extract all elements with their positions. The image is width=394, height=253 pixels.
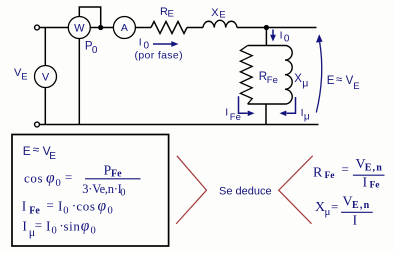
- svg-text:E: E: [353, 81, 359, 92]
- svg-text:cos: cos: [24, 171, 43, 186]
- svg-text:I: I: [46, 219, 51, 234]
- svg-text:cos: cos: [76, 199, 95, 214]
- svg-text:X: X: [294, 73, 302, 85]
- svg-text:I: I: [22, 199, 27, 214]
- arrow I0 down at node: [272, 30, 274, 37]
- arrow I0 horizontal: [153, 43, 173, 45]
- svg-text:μ: μ: [325, 206, 331, 218]
- junction dot node shunt: [264, 25, 269, 30]
- resistor RFe vertical: [240, 46, 252, 105]
- svg-text:μ: μ: [304, 111, 310, 122]
- wire top after wattmeter dot to ammeter: [90, 27, 113, 29]
- wire voltmeter branch upper: [44, 28, 46, 66]
- svg-text:E: E: [23, 144, 31, 158]
- svg-text:I: I: [139, 36, 142, 48]
- wire top main: [40, 27, 69, 29]
- svg-text:W: W: [74, 23, 85, 35]
- svg-text:A: A: [121, 22, 128, 34]
- svg-text:X: X: [211, 7, 219, 19]
- svg-text:I: I: [280, 29, 283, 41]
- svg-text:R: R: [313, 166, 323, 181]
- svg-text:=: =: [331, 199, 338, 214]
- svg-text:=: =: [342, 162, 349, 177]
- svg-text:R: R: [259, 71, 267, 83]
- svg-text:Fe: Fe: [230, 112, 241, 123]
- svg-text:=: =: [46, 198, 53, 213]
- wattmeter W: [68, 17, 90, 39]
- wire shunt bottom bar: [248, 103, 285, 105]
- svg-text:0: 0: [108, 206, 113, 217]
- svg-text:0: 0: [92, 45, 98, 56]
- svg-text:I: I: [22, 219, 27, 234]
- junction dot after W: [98, 25, 103, 30]
- svg-text:=: =: [65, 170, 72, 185]
- inductor Xmu vertical: [285, 46, 292, 105]
- svg-text:≈: ≈: [336, 74, 342, 86]
- svg-text:0: 0: [56, 178, 61, 189]
- inductor XE: [203, 20, 237, 27]
- svg-text:μ: μ: [302, 78, 308, 90]
- svg-text:sin: sin: [64, 219, 81, 234]
- svg-text:E: E: [168, 9, 174, 20]
- svg-text:I: I: [225, 107, 228, 119]
- svg-text:φ: φ: [98, 198, 107, 215]
- wattmeter current-coil loop: [79, 7, 100, 28]
- svg-text:0: 0: [91, 226, 96, 237]
- terminal top-left: [35, 25, 40, 30]
- svg-text:E,n: E,n: [352, 200, 370, 211]
- red bracket left: [176, 156, 206, 224]
- formula box: [12, 135, 169, 247]
- svg-text:V: V: [42, 71, 50, 83]
- terminal bottom-left: [35, 122, 40, 127]
- wire shunt top bar: [248, 45, 285, 47]
- svg-text:I: I: [58, 199, 63, 214]
- svg-text:Fe: Fe: [325, 171, 335, 181]
- wattmeter voltage lead: [78, 39, 80, 125]
- svg-text:E: E: [21, 72, 27, 83]
- svg-text:E: E: [327, 75, 335, 87]
- wire voltmeter branch lower: [44, 88, 46, 125]
- svg-text:3·Ve,n·I: 3·Ve,n·I: [82, 182, 121, 196]
- resistor RE: [151, 22, 187, 34]
- svg-text:0: 0: [52, 226, 57, 237]
- svg-text:φ: φ: [81, 218, 90, 235]
- wire inductor to right end: [237, 27, 317, 29]
- svg-text:E,n: E,n: [365, 163, 383, 174]
- wire ammeter to resistor: [135, 27, 151, 29]
- wire shunt to bottom main: [265, 104, 267, 125]
- arc E approx VE: [316, 42, 321, 113]
- wire resistor to inductor: [187, 27, 203, 29]
- arrow Imu: [287, 97, 296, 113]
- fraction PFe over 3VenI0: [85, 178, 141, 180]
- svg-text:Fe: Fe: [111, 169, 122, 180]
- svg-text:Fe: Fe: [370, 181, 380, 191]
- svg-text:P: P: [104, 163, 112, 178]
- voltmeter V: [35, 66, 57, 88]
- wire bottom main: [40, 124, 319, 126]
- svg-text:E: E: [49, 151, 56, 162]
- wire shunt drop: [265, 28, 267, 46]
- svg-text:I: I: [363, 176, 368, 191]
- svg-text:Se deduce: Se deduce: [219, 186, 272, 198]
- ammeter A: [113, 17, 135, 39]
- svg-text:I: I: [353, 214, 358, 229]
- svg-text:≈: ≈: [33, 143, 40, 157]
- svg-text:0: 0: [120, 188, 125, 199]
- svg-text:φ: φ: [46, 170, 55, 187]
- svg-text:0: 0: [284, 33, 290, 44]
- svg-text:Fe: Fe: [267, 75, 278, 86]
- svg-text:=: =: [35, 218, 42, 233]
- arrow IFe: [239, 96, 248, 113]
- red bracket right: [279, 156, 313, 224]
- svg-text:0: 0: [63, 206, 68, 217]
- svg-text:(por fase): (por fase): [135, 50, 183, 62]
- svg-text:Fe: Fe: [29, 206, 40, 217]
- svg-text:E: E: [219, 10, 225, 21]
